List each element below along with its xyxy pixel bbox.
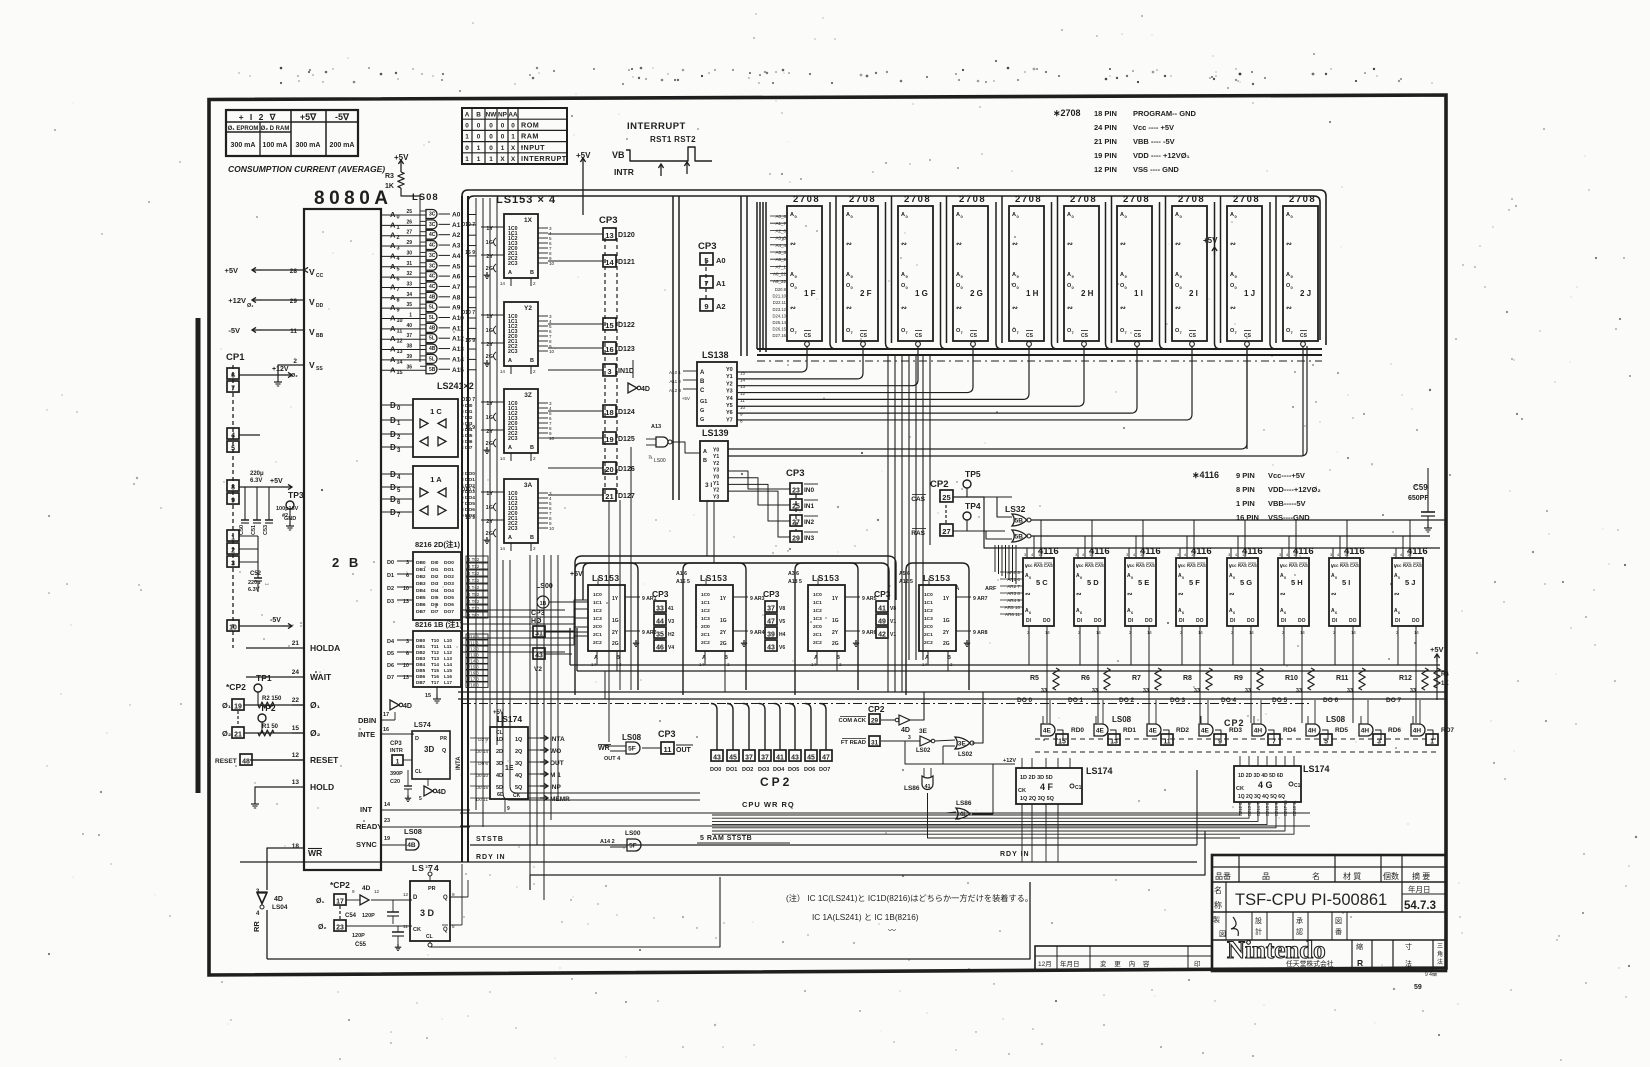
svg-text:Y3: Y3 (713, 468, 719, 474)
svg-text:11: 11 (403, 924, 408, 929)
svg-text:INTERRUPT: INTERRUPT (521, 154, 567, 163)
svg-text:CS: CS (1081, 333, 1089, 339)
svg-text:CP2: CP2 (930, 479, 948, 490)
svg-text:R9: R9 (1234, 675, 1243, 682)
svg-text:AR5 10: AR5 10 (1005, 605, 1021, 610)
svg-text:RAM: RAM (521, 132, 539, 141)
svg-text:Y1: Y1 (713, 454, 719, 460)
svg-text:B: B (703, 458, 707, 464)
svg-text:3D: 3D (424, 745, 434, 754)
svg-text:33: 33 (1245, 688, 1251, 694)
svg-text:1C3: 1C3 (593, 616, 602, 622)
svg-text:∾: ∾ (1230, 305, 1236, 312)
svg-text:D23.12: D23.12 (772, 307, 786, 312)
svg-text:2C2: 2C2 (813, 640, 822, 646)
CP3 pin 16 D123 (603, 342, 616, 354)
svg-text:VBB-----5V: VBB-----5V (1268, 499, 1306, 508)
svg-text:R7: R7 (1132, 675, 1141, 682)
svg-text:CP2: CP2 (760, 775, 792, 789)
svg-text:INTR: INTR (390, 748, 403, 754)
svg-text:GND: GND (284, 516, 296, 522)
svg-text:2708: 2708 (904, 194, 931, 205)
svg-text:T14: T14 (431, 662, 439, 667)
svg-text:8216 1B (注1): 8216 1B (注1) (415, 619, 463, 629)
svg-text:4 G: 4 G (1258, 780, 1273, 790)
svg-text:V2: V2 (534, 666, 542, 673)
svg-text:IN3: IN3 (804, 535, 815, 542)
svg-text:6: 6 (231, 372, 235, 379)
svg-text:37: 37 (761, 754, 769, 761)
svg-text:LS139: LS139 (702, 428, 729, 438)
svg-text:0: 0 (511, 123, 515, 130)
CP2 pin RD7 (1426, 734, 1438, 745)
svg-text:46: 46 (656, 644, 664, 651)
svg-text:41: 41 (668, 606, 674, 612)
svg-text:41: 41 (776, 754, 784, 761)
svg-text:14: 14 (500, 546, 506, 551)
svg-text:CS: CS (1026, 333, 1034, 339)
svg-text:3Q: 3Q (515, 761, 523, 767)
svg-text:X: X (500, 156, 505, 163)
svg-text:IN2: IN2 (804, 519, 815, 526)
svg-text:2G: 2G (486, 354, 493, 360)
svg-text:4 T52: 4 T52 (468, 592, 480, 597)
svg-text:DO: DO (1043, 618, 1051, 624)
svg-text:5: 5 (231, 445, 235, 452)
svg-text:TP1: TP1 (256, 673, 272, 683)
svg-text:∾: ∾ (1067, 305, 1073, 312)
svg-text:CS: CS (915, 333, 923, 339)
svg-text:1: 1 (465, 156, 469, 163)
svg-text:V1: V1 (890, 619, 896, 625)
svg-text:15: 15 (425, 693, 431, 699)
svg-text:33: 33 (1410, 688, 1416, 694)
svg-text:∾: ∾ (1286, 241, 1292, 248)
svg-text:47: 47 (822, 754, 830, 761)
svg-text:STSTB: STSTB (476, 836, 504, 843)
svg-text:A8_22: A8_22 (773, 272, 787, 277)
svg-text:D218 11: D218 11 (1292, 800, 1297, 816)
OR gate LS32 5B ras (1012, 530, 1027, 542)
svg-text:37: 37 (767, 605, 775, 612)
svg-text:1E: 1E (505, 765, 514, 772)
bus loops row2 LS153 (575, 563, 638, 695)
svg-text:12: 12 (740, 391, 746, 396)
svg-text:LS138: LS138 (702, 350, 729, 360)
svg-text:RESET: RESET (310, 755, 339, 765)
svg-text:2: 2 (533, 281, 536, 286)
svg-text:Ø₁: Ø₁ (247, 303, 254, 309)
svg-text:49: 49 (878, 618, 886, 625)
svg-text:個数: 個数 (1383, 871, 1399, 881)
svg-text:L12: L12 (444, 650, 452, 655)
svg-text:+5V: +5V (270, 478, 283, 485)
svg-text:Y4: Y4 (726, 396, 734, 402)
svg-text:4 T12: 4 T12 (468, 564, 480, 569)
svg-text:4B: 4B (429, 294, 436, 300)
inverter 4D dbin (390, 700, 399, 710)
svg-text:DB3: DB3 (416, 581, 426, 587)
svg-text:D21.10: D21.10 (772, 294, 786, 299)
svg-text:V3: V3 (668, 619, 674, 625)
svg-text:RDY IN: RDY IN (1000, 851, 1030, 858)
svg-text:Vcc ---- +5V: Vcc ---- +5V (1133, 123, 1174, 132)
svg-text:Ø₂: Ø₂ (318, 924, 327, 931)
svg-text:11: 11 (664, 745, 672, 754)
LS139 drop wires (706, 502, 708, 556)
CP2 pin RD3 (1214, 734, 1226, 745)
svg-text:図: 図 (1219, 930, 1226, 938)
svg-text:5D: 5D (496, 785, 503, 791)
svg-text:↔: ↔ (264, 581, 270, 587)
svg-text:CONSUMPTION CURRENT (AVERAGE): CONSUMPTION CURRENT (AVERAGE) (228, 164, 385, 174)
svg-text:CS: CS (970, 333, 978, 339)
svg-text:RESET: RESET (215, 758, 237, 765)
svg-text:∾: ∾ (1120, 241, 1126, 248)
LS02 second input from below (942, 746, 944, 764)
svg-text:43: 43 (767, 644, 775, 651)
svg-text:1 J: 1 J (1244, 289, 1255, 298)
svg-text:1G: 1G (612, 618, 619, 624)
svg-text:18: 18 (292, 843, 300, 850)
svg-text:INTE: INTE (358, 730, 375, 739)
svg-text:2C0: 2C0 (813, 624, 822, 630)
svg-text:CL: CL (415, 769, 422, 775)
svg-text:∾: ∾ (1076, 591, 1082, 598)
svg-text:43: 43 (713, 754, 721, 761)
svg-text:2: 2 (533, 369, 536, 374)
svg-text:DI: DI (1332, 618, 1338, 624)
svg-text:6: 6 (1284, 611, 1286, 615)
svg-text:HOLD: HOLD (310, 782, 334, 792)
svg-text:4D: 4D (403, 703, 412, 710)
svg-text:11: 11 (740, 398, 745, 403)
svg-text:3C: 3C (429, 253, 436, 259)
svg-text:∾: ∾ (1394, 591, 1400, 598)
svg-text:10: 10 (229, 624, 237, 631)
svg-text:35: 35 (656, 631, 664, 638)
multiplexer LS153 3A (504, 479, 538, 543)
svg-text:36: 36 (406, 364, 412, 370)
svg-text:16 PIN: 16 PIN (1236, 513, 1259, 522)
2708 bottom bus (757, 348, 1322, 350)
svg-text:認: 認 (1296, 927, 1303, 936)
svg-text:RD1: RD1 (1123, 727, 1136, 734)
svg-text:14: 14 (1147, 630, 1152, 635)
gate 4H rd5 (1306, 724, 1320, 736)
svg-text:2C2: 2C2 (593, 640, 602, 646)
svg-text:4B: 4B (407, 842, 416, 849)
svg-text:2708: 2708 (1123, 194, 1150, 205)
svg-text:2C3: 2C3 (508, 261, 518, 267)
svg-text:D4: D4 (387, 639, 395, 645)
test point TP4 (963, 512, 971, 520)
svg-text:14: 14 (1414, 630, 1419, 635)
svg-text:A9_22: A9_22 (773, 279, 787, 284)
svg-text:Vcc: Vcc (1025, 563, 1033, 568)
svg-text:DB5: DB5 (416, 595, 426, 601)
svg-text:2G: 2G (943, 641, 950, 647)
svg-text:VDD----+12VØ₂: VDD----+12VØ₂ (1268, 485, 1321, 494)
svg-text:17: 17 (336, 898, 344, 905)
svg-text:3E: 3E (958, 740, 967, 747)
svg-text:3Z: 3Z (524, 392, 532, 399)
svg-text:CAS: CAS (1248, 563, 1257, 568)
svg-text:RD0: RD0 (1071, 727, 1084, 734)
svg-text:LS174: LS174 (1303, 764, 1330, 774)
svg-text:DB2: DB2 (416, 574, 426, 580)
svg-text:3 D: 3 D (420, 908, 435, 918)
svg-text:PR: PR (428, 886, 436, 892)
svg-text:L16: L16 (444, 674, 452, 679)
svg-text:法: 法 (1437, 958, 1443, 966)
svg-text:CS: CS (1189, 333, 1197, 339)
svg-text:2Y: 2Y (832, 630, 839, 636)
CP1 +5V wire (239, 486, 282, 488)
svg-text:3: 3 (607, 367, 611, 376)
svg-text:2G: 2G (612, 641, 619, 647)
svg-text:14: 14 (500, 456, 506, 461)
svg-text:2G: 2G (720, 641, 727, 647)
svg-text:R2 150: R2 150 (262, 696, 282, 702)
svg-text:DO0: DO0 (444, 560, 454, 566)
svg-text:5 RAM STSTB: 5 RAM STSTB (700, 835, 752, 842)
svg-text:0: 0 (489, 134, 493, 141)
svg-text:V8: V8 (779, 606, 785, 612)
svg-text:T13: T13 (431, 656, 439, 661)
svg-text:Ø₂ D RAM: Ø₂ D RAM (261, 126, 290, 132)
svg-text:A10 1: A10 1 (669, 370, 681, 375)
svg-text:+5V: +5V (570, 571, 583, 578)
svg-text:T16 3: T16 3 (468, 671, 479, 676)
svg-text:SS: SS (316, 366, 323, 372)
svg-text:Ø₂: Ø₂ (291, 373, 298, 379)
svg-text:4H: 4H (1254, 728, 1263, 735)
svg-text:2G: 2G (486, 266, 493, 272)
EPROM CS wires (737, 346, 807, 372)
svg-text:15 9: 15 9 (465, 250, 475, 256)
svg-text:3 I: 3 I (705, 482, 712, 489)
svg-text:28: 28 (290, 268, 298, 275)
CP3 pin 9 A2 (700, 299, 713, 311)
svg-text:TP4: TP4 (965, 501, 981, 511)
svg-text:D125: D125 (618, 436, 635, 443)
gate 4H rd7 (1411, 724, 1425, 736)
svg-text:2C3: 2C3 (508, 526, 518, 532)
svg-text:5 I: 5 I (1342, 578, 1350, 587)
svg-text:AR6 11: AR6 11 (1005, 612, 1020, 617)
svg-text:A: A (465, 111, 470, 118)
svg-text:C1: C1 (1294, 783, 1301, 789)
svg-text:DB1: DB1 (416, 644, 426, 649)
svg-text:7: 7 (231, 385, 235, 392)
svg-text:DO 2: DO 2 (1119, 697, 1135, 704)
svg-text:Y2: Y2 (726, 381, 733, 387)
svg-text:21: 21 (292, 640, 300, 647)
svg-text:Vcc: Vcc (1076, 563, 1084, 568)
svg-text:3: 3 (231, 560, 235, 567)
svg-text:2C1: 2C1 (701, 632, 710, 638)
svg-text:LS153: LS153 (592, 573, 620, 583)
svg-text:43: 43 (535, 652, 543, 659)
svg-text:B: B (530, 535, 534, 541)
svg-text:CP3: CP3 (652, 589, 669, 599)
svg-text:1: 1 (231, 534, 235, 541)
svg-text:D215 8: D215 8 (1265, 802, 1270, 816)
svg-text:D25.14: D25.14 (772, 320, 786, 325)
svg-text:C55: C55 (355, 942, 367, 948)
verticals below bottom bus (887, 355, 889, 692)
name cell (1225, 882, 1227, 912)
svg-text:390P: 390P (390, 771, 403, 777)
svg-text:2 F: 2 F (860, 289, 872, 298)
svg-text:CAS: CAS (1197, 563, 1206, 568)
svg-text:∾: ∾ (1280, 591, 1286, 598)
svg-text:R4: R4 (1441, 672, 1449, 678)
svg-text:A: A (1012, 272, 1016, 278)
CP3 pin 13 D120 (603, 228, 616, 240)
svg-text:CP3: CP3 (874, 589, 891, 599)
svg-text:1 G: 1 G (915, 289, 928, 298)
svg-text:A5 6: A5 6 (899, 571, 910, 577)
svg-text:4 F: 4 F (1040, 782, 1054, 792)
svg-text:+ I 2 ∇: + I 2 ∇ (239, 112, 278, 122)
svg-text:名: 名 (1214, 885, 1222, 895)
svg-text:14: 14 (605, 258, 614, 267)
svg-text:DO7: DO7 (444, 609, 454, 615)
svg-text:1C1: 1C1 (593, 600, 602, 606)
svg-text:WR: WR (308, 848, 322, 858)
svg-text:∾: ∾ (956, 241, 962, 248)
svg-text:∾: ∾ (1286, 305, 1292, 312)
svg-text:Y2: Y2 (713, 461, 719, 467)
svg-text:9: 9 (231, 497, 235, 504)
svg-text:DO6: DO6 (444, 602, 454, 608)
svg-text:T18 3: T18 3 (468, 683, 479, 688)
svg-text:D: D (415, 736, 419, 742)
svg-text:13: 13 (605, 231, 613, 240)
svg-text:LS02: LS02 (958, 752, 973, 758)
svg-text:AA: AA (508, 111, 518, 118)
svg-text:33: 33 (1143, 688, 1149, 694)
svg-text:45: 45 (807, 754, 815, 761)
svg-text:品番: 品番 (1215, 871, 1231, 881)
svg-text:14: 14 (1045, 630, 1050, 635)
svg-text:B: B (530, 358, 534, 364)
svg-text:33: 33 (1092, 688, 1098, 694)
svg-text:9 AR4: 9 AR4 (750, 630, 765, 636)
capacitor C51 (256, 487, 258, 520)
svg-text:年月日: 年月日 (1060, 959, 1080, 968)
svg-text:4: 4 (231, 432, 235, 439)
svg-text:1C0: 1C0 (701, 592, 710, 598)
svg-text:DO: DO (1247, 618, 1255, 624)
svg-text:39: 39 (767, 631, 775, 638)
svg-text:C50: C50 (239, 525, 245, 535)
svg-text:0: 0 (501, 134, 505, 141)
svg-text:Vcc: Vcc (1394, 563, 1402, 568)
svg-text:A: A (901, 212, 905, 218)
svg-text:300 mA: 300 mA (231, 142, 256, 149)
svg-text:∾: ∾ (1331, 591, 1337, 598)
4G output drops (712, 802, 1240, 815)
svg-text:16: 16 (383, 727, 389, 733)
svg-text:WO: WO (550, 748, 561, 755)
svg-text:RAS: RAS (1136, 563, 1145, 568)
svg-text:5B: 5B (1015, 533, 1024, 540)
svg-text:Y0: Y0 (726, 367, 733, 373)
svg-text:DO 4: DO 4 (1221, 697, 1237, 704)
svg-text:0: 0 (1284, 576, 1286, 580)
svg-text:DO: DO (1145, 618, 1153, 624)
svg-text:8080A: 8080A (314, 188, 393, 209)
svg-text:G: G (700, 408, 704, 414)
gate 4E rd3 (1199, 724, 1213, 736)
svg-text:9: 9 (1218, 738, 1222, 745)
svg-text:D127: D127 (618, 493, 635, 500)
svg-text:V4: V4 (668, 645, 674, 651)
svg-text:4 T32: 4 T32 (468, 578, 480, 583)
svg-text:5B: 5B (1015, 517, 1024, 524)
svg-text:DBIN: DBIN (358, 716, 376, 725)
svg-text:1B: 1B (540, 601, 547, 607)
svg-text:∗4116: ∗4116 (1192, 470, 1219, 480)
page edge bar left (196, 318, 201, 793)
svg-text:RD7: RD7 (1441, 727, 1454, 734)
svg-text:19 PIN: 19 PIN (1094, 151, 1117, 160)
svg-text:OUT: OUT (550, 760, 564, 767)
svg-text:AR0 5: AR0 5 (1007, 570, 1020, 575)
svg-text:0: 0 (477, 134, 481, 141)
svg-text:-5V: -5V (270, 617, 281, 624)
svg-text:9: 9 (704, 302, 708, 311)
svg-text:T10 3: T10 3 (468, 635, 479, 640)
svg-text:4 T42: 4 T42 (468, 585, 480, 590)
svg-text:200 mA: 200 mA (330, 142, 355, 149)
svg-text:DB3: DB3 (416, 656, 426, 661)
svg-text:+5V: +5V (1430, 645, 1444, 654)
svg-text:∗2708: ∗2708 (1053, 108, 1081, 118)
svg-text:DO: DO (1298, 618, 1306, 624)
svg-text:5F: 5F (629, 843, 637, 850)
CP1 +12V wire (239, 374, 282, 376)
svg-text:LS08: LS08 (412, 192, 439, 203)
svg-text:CAS: CAS (1146, 563, 1155, 568)
svg-text:品: 品 (1262, 872, 1270, 881)
address decode truth table (462, 108, 567, 164)
svg-text:4E: 4E (1043, 728, 1052, 735)
svg-text:4E: 4E (1201, 728, 1210, 735)
svg-text:CK: CK (513, 793, 521, 799)
svg-text:DI: DI (1077, 618, 1083, 624)
svg-text:D27.16: D27.16 (772, 333, 786, 338)
svg-text:0: 0 (477, 123, 481, 130)
CP3 pin 27 IN2 (790, 515, 802, 526)
svg-text:3D: 3D (496, 761, 503, 767)
svg-text:35: 35 (406, 302, 412, 308)
svg-text:37: 37 (406, 333, 412, 339)
wide arcs to DRAM addr (575, 556, 896, 600)
svg-text:D24.13: D24.13 (772, 313, 786, 318)
1E output signals (528, 737, 540, 739)
svg-text:DB1: DB1 (416, 567, 426, 573)
svg-text:D1: D1 (387, 573, 394, 579)
svg-text:A: A (1175, 212, 1179, 218)
svg-text:31: 31 (871, 740, 879, 747)
svg-text:1D 2D 3D 5D: 1D 2D 3D 5D (1020, 775, 1053, 781)
svg-text:21 PIN: 21 PIN (1094, 137, 1117, 146)
svg-text:40: 40 (406, 323, 412, 329)
